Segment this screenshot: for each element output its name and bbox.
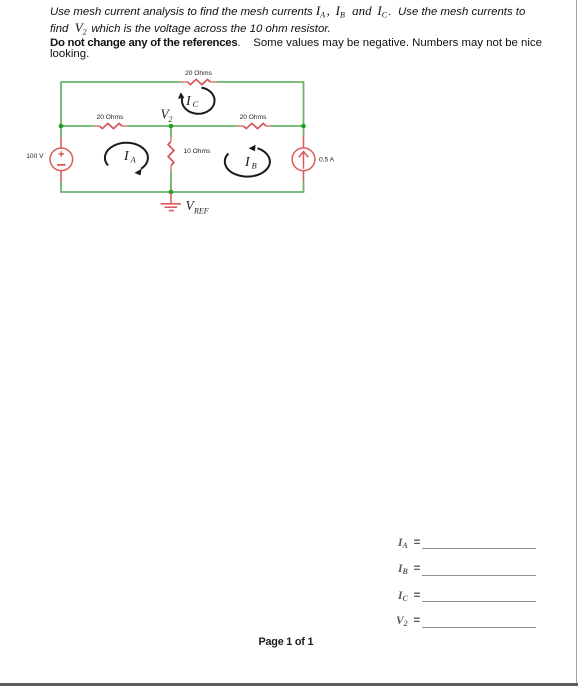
wire bottom [61,191,304,193]
svg-text:10 Ohms: 10 Ohms [184,148,211,155]
resistor R1 20 Ohms top [181,79,217,84]
svg-text:2: 2 [169,115,173,124]
voltage source V1 100V [50,137,73,182]
mesh arrow IC [182,88,215,114]
wire middle [61,125,304,127]
resistor R4 10 Ohms middle vertical [168,137,174,171]
svg-text:C: C [193,99,199,109]
mesh arrow IA [105,143,148,169]
svg-text:B: B [252,161,257,171]
svg-text:0.5 A: 0.5 A [319,157,335,164]
svg-text:20 Ohms: 20 Ohms [240,114,267,121]
svg-text:100 V: 100 V [26,153,44,160]
wire left vertical [60,81,62,193]
answer blanks [398,537,420,549]
node V2 dot [169,124,174,129]
ground VREF [161,193,182,211]
page number [259,636,314,648]
current source I1 0.5A [292,137,315,182]
node left dot [59,124,64,129]
node bottom dot [169,190,174,195]
svg-text:20 Ohms: 20 Ohms [185,70,212,77]
svg-text:I: I [244,155,251,170]
svg-text:I: I [123,149,130,164]
svg-text:I: I [185,94,192,109]
resistor R3 20 Ohms middle-right [237,123,270,128]
wire right vertical [303,81,305,193]
node right dot [301,124,306,129]
circuit schematic [0,60,360,225]
mesh arrow IB [225,148,270,176]
question text [50,6,525,18]
wire middle vertical [170,126,172,192]
svg-text:REF: REF [193,207,209,216]
svg-text:20 Ohms: 20 Ohms [97,114,124,121]
svg-text:A: A [130,155,137,165]
resistor R2 20 Ohms middle-left [94,123,127,128]
bottom bar [0,683,578,686]
wire top [61,81,304,83]
